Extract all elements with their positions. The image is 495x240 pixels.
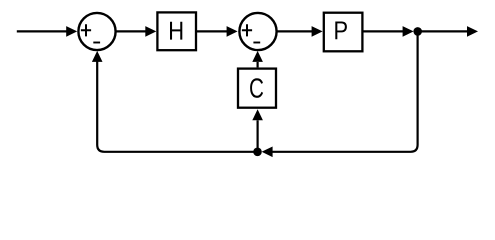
node N2 <box>253 148 262 157</box>
wire output <box>418 26 478 37</box>
node N1 <box>413 27 422 36</box>
wire P to node N1 <box>364 26 414 37</box>
wire H to S2 <box>197 26 238 37</box>
block P <box>324 13 363 52</box>
wire feedback N2 left and up to S1 <box>92 51 258 152</box>
wire C up to S2 <box>252 51 263 68</box>
wire input <box>17 26 77 37</box>
summing junction S2 <box>239 13 276 50</box>
block C <box>238 69 276 108</box>
wire S2 to P <box>277 26 322 37</box>
wire S1 to H <box>116 26 156 37</box>
summing junction S1 <box>78 13 115 50</box>
block H <box>157 12 196 50</box>
wire feedback N1 down to bottom and left to node N2 <box>262 31 418 157</box>
wire N2 up to C <box>252 109 263 152</box>
